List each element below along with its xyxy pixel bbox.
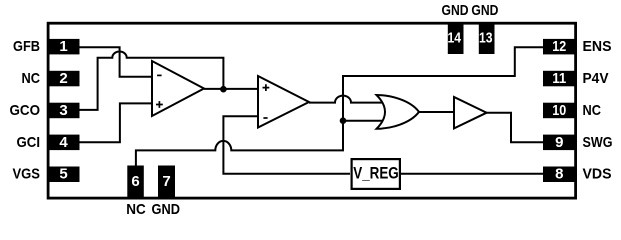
svg-text:GCI: GCI [17,134,41,151]
svg-text:NC: NC [583,102,602,119]
svg-text:SWG: SWG [583,134,613,151]
svg-text:GND: GND [471,2,498,19]
svg-text:12: 12 [552,38,566,55]
svg-text:VDS: VDS [583,166,612,183]
svg-text:V_REG: V_REG [353,163,399,182]
svg-text:NC: NC [22,70,41,87]
svg-text:10: 10 [552,102,566,119]
svg-text:1: 1 [59,38,67,55]
svg-text:GCO: GCO [10,102,41,119]
svg-text:ENS: ENS [583,38,612,55]
svg-text:14: 14 [448,30,462,47]
svg-text:3: 3 [59,102,67,119]
svg-text:9: 9 [555,134,563,151]
svg-text:5: 5 [59,166,67,183]
svg-text:NC: NC [126,201,146,218]
svg-text:GND: GND [442,2,469,19]
svg-text:GND: GND [152,201,181,218]
svg-text:6: 6 [131,173,139,190]
svg-text:VGS: VGS [13,166,41,183]
svg-text:GFB: GFB [13,38,40,55]
svg-text:2: 2 [59,70,67,87]
svg-text:8: 8 [555,166,563,183]
svg-text:13: 13 [479,30,493,47]
svg-text:7: 7 [162,173,170,190]
svg-text:P4V: P4V [583,70,609,87]
svg-text:11: 11 [552,70,566,87]
svg-text:4: 4 [59,134,68,151]
